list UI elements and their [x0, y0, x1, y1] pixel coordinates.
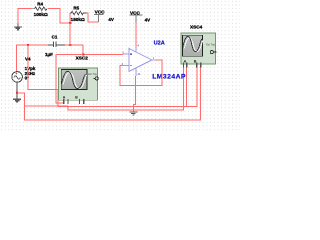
wire ground G1 to R4 left — [18, 9, 31, 27]
XSC4 ext trig terminal — [210, 51, 213, 54]
oscilloscope XSC2 box — [59, 68, 98, 100]
wire XSC4 A- to line1 — [186, 68, 188, 107]
power VCC2 — [130, 15, 143, 23]
svg-text:100kΩ: 100kΩ — [34, 12, 48, 17]
wire VCC2 to op-amp V+ — [135, 22, 137, 47]
svg-text:1µF: 1µF — [45, 52, 53, 57]
wire node E to XSC4 A+ (long bottom line) — [17, 68, 201, 121]
capacitor C1 — [48, 42, 65, 48]
svg-text:VCC: VCC — [95, 10, 106, 15]
wire node A up to R5 left — [69, 13, 71, 23]
svg-text:XSC4: XSC4 — [190, 25, 203, 30]
wire R5 right to VCC1 — [86, 13, 98, 22]
svg-text:U2A: U2A — [154, 41, 165, 47]
op-amp U2A — [121, 47, 155, 76]
svg-text:VCC: VCC — [130, 11, 141, 16]
resistor R5 — [70, 11, 86, 15]
svg-text:XSC2: XSC2 — [76, 56, 89, 61]
svg-text:LM324AP: LM324AP — [152, 73, 186, 80]
wire R4 right to node A — [48, 9, 70, 23]
XSC2 screen sine — [63, 73, 87, 89]
junction node E (V4 gnd tap) — [16, 92, 18, 94]
wire V4 bottom to ground G2 — [16, 82, 18, 99]
plus sign of V4 — [16, 72, 18, 74]
junction node A — [69, 22, 71, 24]
XSC2 ext trig terminal — [95, 77, 98, 80]
wire C1 right to node B to +in corner — [65, 45, 123, 55]
op-amp minus sign — [130, 65, 132, 67]
XSC4 screen — [183, 35, 203, 56]
junction node D (+input tap) — [82, 54, 84, 56]
power VCC1 — [94, 15, 104, 23]
XSC2 screen — [61, 69, 87, 89]
wire op-amp V- to ground G3 — [133, 76, 135, 111]
wire node A down to node B — [69, 23, 71, 45]
svg-text:4V: 4V — [108, 17, 114, 22]
source V4 — [12, 72, 23, 83]
XSC2 pins — [63, 99, 85, 104]
XSC4 pins — [183, 63, 202, 68]
wire node C down to XSC2 / XSC4 B+ (long line) — [28, 45, 197, 106]
ground G3 — [129, 112, 137, 115]
svg-text:C1: C1 — [52, 34, 58, 39]
svg-text:150kΩ: 150kΩ — [71, 17, 85, 22]
ground G1 — [14, 24, 22, 30]
svg-text:Ext Trig: Ext Trig — [206, 44, 215, 47]
svg-text:R5: R5 — [73, 5, 79, 10]
wire branch to XSC4 A+ — [25, 68, 184, 110]
XSC4 screen sine — [184, 38, 203, 52]
wire V4 top to C1 left — [16, 45, 48, 71]
wire node D left down to XSC2 A — [56, 55, 83, 103]
op-amp plus sign — [130, 53, 132, 55]
svg-text:R4: R4 — [37, 2, 43, 7]
junction node B — [69, 44, 71, 46]
svg-text:4V: 4V — [145, 18, 151, 23]
resistor R4 — [31, 7, 48, 11]
wire feedback output to -in — [120, 60, 162, 85]
ground G2 — [13, 99, 21, 102]
oscilloscope XSC4 box — [181, 33, 216, 64]
junction node C (V4/C1 tap) — [27, 44, 29, 46]
svg-text:Ext Trig: Ext Trig — [88, 73, 97, 76]
